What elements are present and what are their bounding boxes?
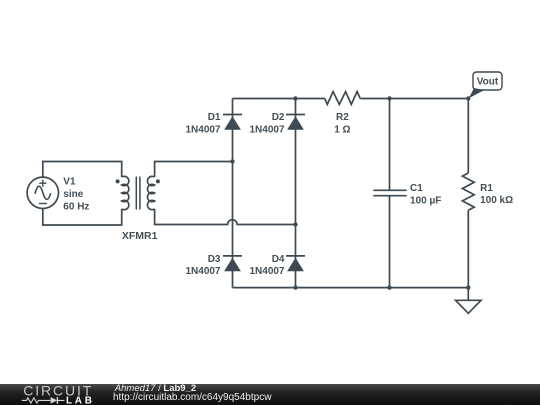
diode D3 <box>223 256 242 271</box>
wire top rail left of R2 <box>233 98 325 100</box>
svg-text:1 Ω: 1 Ω <box>334 125 350 136</box>
transformer XFMR1 <box>116 176 160 209</box>
svg-text:V1: V1 <box>63 177 76 188</box>
footer bar <box>0 384 540 405</box>
node: top rail / bridge right junction dot <box>293 96 297 100</box>
svg-text:XFMR1: XFMR1 <box>122 230 158 242</box>
label C1 100 uF <box>410 183 441 207</box>
wire XFMR1 secondary bottom to bridge right (with hop) <box>155 209 296 225</box>
svg-text:1N4007: 1N4007 <box>249 125 284 136</box>
wire V1 to XFMR1 primary top <box>43 162 122 178</box>
wire C1 branch top <box>389 99 391 191</box>
wire Vout branch top <box>467 99 469 174</box>
label D2 <box>249 112 284 136</box>
svg-text:1N4007: 1N4007 <box>185 125 220 136</box>
resistor R1 <box>462 173 474 210</box>
diode D4 <box>286 256 305 271</box>
wire bottom rail <box>233 287 469 289</box>
svg-text:LAB: LAB <box>66 395 95 405</box>
node: bottom rail / bridge right dot <box>293 285 297 289</box>
svg-text:D4: D4 <box>272 254 285 265</box>
capacitor C1 <box>373 190 406 195</box>
node: bottom rail / ground dot <box>466 285 470 289</box>
wire R1 bottom <box>467 210 469 287</box>
wire C1 branch bottom <box>389 196 391 288</box>
diode D1 <box>223 115 242 130</box>
label XFMR1 <box>122 230 158 242</box>
svg-text:100 kΩ: 100 kΩ <box>480 195 513 206</box>
diode D2 <box>286 115 305 130</box>
svg-text:60 Hz: 60 Hz <box>63 202 89 213</box>
voltage source V1 <box>27 177 58 208</box>
node: secondary bottom junction dot <box>293 222 297 226</box>
label D3 <box>185 254 220 277</box>
svg-text:R2: R2 <box>336 112 349 123</box>
wire XFMR1 secondary top to bridge <box>155 162 233 178</box>
node: bottom rail / C1 dot <box>387 285 391 289</box>
svg-text:D2: D2 <box>272 112 285 123</box>
svg-text:D3: D3 <box>208 254 221 265</box>
label R1 100 kOhm <box>480 183 513 206</box>
node: secondary top junction dot <box>230 159 234 163</box>
label D4 <box>249 254 284 277</box>
svg-text:sine: sine <box>63 189 83 200</box>
label D1 <box>185 112 220 136</box>
footer title <box>115 384 196 394</box>
wire V1 to XFMR1 primary bottom <box>43 208 122 225</box>
CircuitLab logo <box>0 384 110 405</box>
svg-text:Vout: Vout <box>477 77 499 88</box>
node: top rail / C1 junction dot <box>387 96 391 100</box>
svg-text:D1: D1 <box>208 112 221 123</box>
svg-text:1N4007: 1N4007 <box>249 266 284 277</box>
flag Vout <box>469 72 502 98</box>
node Vout junction dot <box>466 96 470 100</box>
footer url <box>113 393 271 402</box>
label R2 1 Ohm <box>334 112 350 136</box>
wire top rail right of R2 <box>360 98 468 100</box>
svg-text:C1: C1 <box>410 183 423 194</box>
ground <box>456 288 481 314</box>
wire bridge right vertical <box>295 99 297 288</box>
resistor R2 <box>325 92 361 105</box>
svg-text:R1: R1 <box>480 183 493 194</box>
wire bridge left vertical <box>232 99 234 288</box>
svg-text:100 µF: 100 µF <box>410 195 441 206</box>
label V1 sine 60 Hz <box>63 177 89 213</box>
svg-text:1N4007: 1N4007 <box>185 266 220 277</box>
